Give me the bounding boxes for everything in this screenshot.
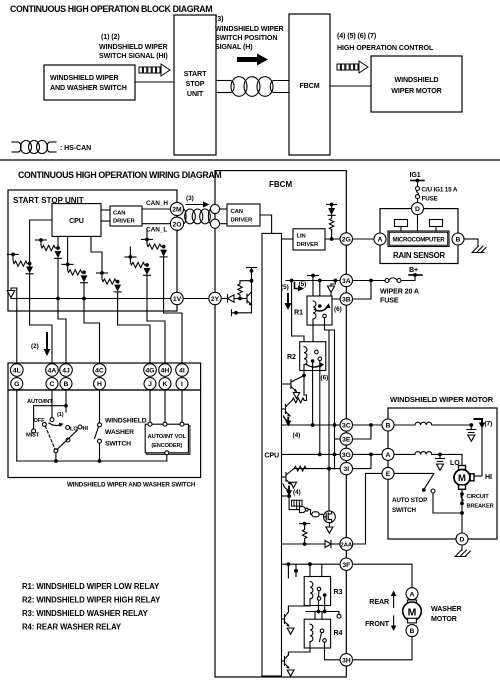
svg-text:IG1: IG1: [410, 171, 421, 179]
contact R2 open: [318, 357, 322, 361]
coil R2: [304, 347, 307, 365]
wire 3C to B with 3E outer loop: [353, 424, 383, 426]
connector D (rain sensor): [412, 203, 424, 215]
svg-text:FBCM: FBCM: [299, 82, 319, 90]
IG1 label: [410, 171, 421, 179]
coil R1: [313, 301, 316, 319]
transistor Q3 (gate driver): [282, 476, 287, 478]
connector 3B: [340, 293, 352, 305]
label (3) with arrow: [186, 195, 194, 202]
brush top: [459, 466, 466, 471]
svg-text:E: E: [386, 471, 391, 478]
connector 3E: [340, 433, 352, 445]
diode D-2G: [328, 208, 335, 215]
diode D-A: [26, 267, 33, 274]
transistor Q6 (R4 driver): [288, 652, 310, 655]
3I line with resistor: [294, 468, 340, 470]
svg-text:4L: 4L: [13, 368, 21, 375]
connector 3F: [340, 558, 352, 570]
CPU U101 box: [52, 204, 101, 237]
transistor Q5 (R3 driver): [288, 606, 310, 612]
svg-text:R4: REAR WASHER RELAY: R4: REAR WASHER RELAY: [22, 623, 122, 632]
separator line: [0, 159, 500, 161]
dashed squares arrow 2: [337, 61, 368, 73]
svg-text:HI: HI: [83, 426, 89, 432]
connector 2O: [170, 217, 183, 230]
wire 2AA to E: [353, 473, 383, 544]
wire switch to start stop unit: [135, 81, 174, 83]
open pin upper: [210, 204, 219, 213]
svg-text:K: K: [163, 381, 168, 388]
washer motor label: [431, 605, 462, 623]
pull-up diode/resistor at 2G: [327, 204, 337, 206]
svg-text:DRIVER: DRIVER: [297, 242, 320, 248]
diode D-E: [144, 268, 151, 275]
ground rail of switch: [16, 390, 18, 461]
svg-text:WINDSHIELD: WINDSHIELD: [105, 418, 147, 425]
MOSFET Q4: [324, 511, 336, 523]
connector 4A: [46, 364, 59, 377]
svg-text:3E: 3E: [342, 437, 351, 444]
svg-text:C: C: [50, 381, 55, 388]
svg-text:R3: R3: [334, 588, 343, 596]
svg-text:M: M: [408, 606, 417, 618]
wire 2G to A: [353, 238, 375, 240]
wire CPU left to cell A: [30, 220, 52, 264]
contact R4 no: [323, 639, 327, 643]
wire washer B to 3H: [353, 637, 413, 660]
svg-text:SWITCH SIGNAL (HI): SWITCH SIGNAL (HI): [99, 52, 168, 60]
svg-text:WIPER MOTOR: WIPER MOTOR: [391, 87, 441, 95]
node CAN_H label: [146, 200, 168, 207]
svg-text:CPU: CPU: [264, 452, 279, 460]
CPU bar: [262, 233, 282, 676]
connector J: [144, 378, 156, 390]
supply stub + resistor to 2AA line: [300, 523, 310, 525]
contact R1 common: [318, 304, 322, 308]
A coil (low): [394, 453, 415, 455]
connector 2G: [340, 233, 352, 245]
wire to LO brush: [451, 454, 462, 465]
svg-text:(4): (4): [293, 489, 301, 496]
wiper motor M: [454, 470, 470, 486]
svg-text:2AA: 2AA: [340, 542, 352, 548]
coil R3: [310, 582, 313, 599]
svg-text:(ENCODER): (ENCODER): [151, 443, 182, 449]
connector 2Y: [209, 292, 221, 304]
svg-text:2M: 2M: [172, 207, 182, 214]
svg-text:4A: 4A: [48, 368, 57, 375]
contact AUTO/INT: [50, 418, 54, 422]
svg-text:SWITCH: SWITCH: [105, 441, 131, 448]
contact MIST: [32, 429, 36, 433]
svg-text:RAIN SENSOR: RAIN SENSOR: [393, 251, 446, 260]
svg-text:DRIVER: DRIVER: [113, 219, 136, 225]
connector 4C: [93, 364, 106, 377]
arc arrow (1): [49, 423, 61, 426]
IG1 supply bar: [411, 180, 424, 182]
connector 3H: [340, 654, 352, 666]
ground (unit): [11, 288, 17, 291]
wire (7) down to HI: [481, 426, 483, 475]
svg-text:(4) (5) (6) (7): (4) (5) (6) (7): [337, 32, 377, 40]
svg-text:4I: 4I: [179, 368, 185, 375]
wire CPU to CAN driver: [101, 209, 110, 211]
connector B (rain sensor): [452, 233, 464, 245]
svg-text:(4): (4): [293, 432, 301, 439]
start stop unit box: [8, 190, 177, 311]
fuse WIPER 20A: [385, 279, 389, 283]
label (3) switch position signal: [215, 15, 284, 51]
label (5) texts and arrows: [281, 284, 289, 291]
svg-text:R2: R2: [287, 353, 296, 361]
svg-text:R3: WINDSHIELD WASHER RELAY: R3: WINDSHIELD WASHER RELAY: [22, 609, 149, 618]
svg-text:B: B: [386, 423, 391, 430]
wire CPU bottom feeds: [57, 236, 59, 248]
connector 3A: [340, 274, 352, 286]
svg-text:AUTO/INT: AUTO/INT: [27, 399, 53, 405]
switch bottom label: [67, 482, 196, 489]
svg-text:G: G: [14, 381, 19, 388]
svg-text:WINDSHIELD WIPER AND WASHER SW: WINDSHIELD WIPER AND WASHER SWITCH: [67, 482, 196, 489]
relay R4: [304, 619, 330, 648]
auto/int vol encoder box: [147, 426, 190, 455]
svg-text:3A: 3A: [342, 278, 351, 285]
svg-text:(1): (1): [57, 412, 64, 418]
connector strip box: [8, 363, 201, 390]
3F line: [282, 563, 341, 565]
svg-text:MICROCOMPUTER: MICROCOMPUTER: [393, 237, 446, 244]
wires unit to connector row: [16, 288, 18, 364]
diode D-C: [81, 275, 88, 282]
connector B: [60, 378, 72, 390]
svg-text:AND WASHER SWITCH: AND WASHER SWITCH: [50, 84, 127, 92]
wire CAN_L: [142, 223, 171, 225]
lever R3: [318, 591, 321, 597]
connector E (wiper motor): [382, 467, 394, 479]
svg-text:WINDSHIELD WIPER: WINDSHIELD WIPER: [215, 25, 284, 33]
contact R1 open: [323, 314, 327, 318]
lever R4: [320, 633, 322, 642]
svg-text:MIST: MIST: [26, 433, 40, 439]
switch body box: [8, 390, 201, 478]
wires R2 contacts down: [312, 363, 314, 425]
wire R4 out to 3H: [325, 642, 341, 660]
wire 1V-2Y: [183, 298, 209, 300]
connector D (wiper motor): [456, 533, 468, 545]
thick black arrow: [237, 54, 268, 66]
brush HI nub: [470, 474, 474, 481]
2AA line with diode: [282, 543, 326, 545]
3A line: [286, 280, 340, 282]
LIN driver box: [282, 238, 294, 240]
logic box: [292, 500, 303, 506]
svg-text:4J: 4J: [62, 368, 70, 375]
svg-text:WASHER: WASHER: [105, 429, 134, 436]
windshield wiper and washer switch box: [44, 65, 135, 100]
svg-text:WASHER: WASHER: [431, 605, 462, 613]
transistor Q2 (3C driver): [282, 408, 286, 410]
connector A (wiper motor): [382, 448, 394, 460]
circuit breaker: [461, 489, 463, 533]
svg-text:3C: 3C: [342, 423, 351, 430]
rain sensor box: [380, 209, 458, 264]
pigtail terminal: [338, 612, 340, 615]
svg-text:D: D: [460, 537, 465, 544]
wire LIN to 2G: [325, 238, 340, 240]
svg-text:LIN: LIN: [297, 234, 306, 240]
svg-text:CONTINUOUS HIGH OPERATION WIRI: CONTINUOUS HIGH OPERATION WIRING DIAGRAM: [18, 170, 221, 180]
svg-text:R1: WINDSHIELD WIPER LOW RELAY: R1: WINDSHIELD WIPER LOW RELAY: [22, 582, 160, 591]
brush bottom: [459, 485, 466, 490]
svg-text:2O: 2O: [172, 221, 181, 228]
svg-text:(3): (3): [186, 195, 194, 202]
sensor element left: [395, 220, 408, 227]
svg-text:4G: 4G: [145, 368, 154, 375]
encoder wires J K I: [149, 390, 151, 423]
svg-text:A: A: [386, 452, 391, 459]
svg-text:CAN: CAN: [113, 211, 125, 217]
contact LO: [66, 426, 70, 430]
svg-text:LO: LO: [70, 427, 78, 433]
wire 3G to A with 3I outer loop: [353, 453, 383, 455]
ground rail wire: [11, 298, 171, 300]
svg-text:WINDSHIELD WIPER: WINDSHIELD WIPER: [50, 74, 119, 82]
resistor cell D: [97, 272, 108, 274]
svg-text:C/U IG1 15 A: C/U IG1 15 A: [422, 187, 458, 194]
svg-text:(6): (6): [321, 375, 329, 382]
brush washer top: [408, 600, 417, 605]
noise ground A: [439, 454, 441, 458]
rotary wiper switch SW1: [27, 399, 53, 405]
connector C: [46, 378, 58, 390]
connector G: [11, 378, 23, 390]
wire B to mist branch: [65, 390, 67, 406]
resistor R-q1: [292, 398, 306, 403]
B coil (high): [394, 424, 415, 426]
svg-text:WINDSHIELD WIPER MOTOR: WINDSHIELD WIPER MOTOR: [390, 395, 494, 404]
wire FBCM to wiper motor: [330, 85, 371, 87]
connector H: [94, 378, 106, 390]
title: wiring diagram: [18, 170, 221, 180]
dashed squares arrow 1: [139, 64, 170, 76]
svg-text:B+: B+: [409, 266, 418, 274]
wire rotary common to rail: [55, 453, 57, 461]
connector 1V: [171, 292, 183, 304]
microcomputer box: [388, 231, 449, 247]
resistor R-2G: [329, 215, 333, 232]
svg-text:(7): (7): [485, 421, 493, 428]
svg-text:3H: 3H: [342, 657, 351, 664]
svg-text:HIGH OPERATION CONTROL: HIGH OPERATION CONTROL: [337, 44, 434, 52]
auto stop switch: [394, 472, 434, 474]
svg-text:FUSE: FUSE: [422, 196, 438, 203]
svg-text:A: A: [410, 591, 415, 598]
gate feed line: [282, 495, 290, 497]
svg-text:(5): (5): [281, 284, 289, 291]
svg-text:: HS-CAN: : HS-CAN: [60, 144, 91, 152]
svg-text:2G: 2G: [342, 237, 351, 244]
gate symbol: [289, 509, 299, 511]
connector B (wiper motor): [382, 419, 394, 431]
wire branch to R2 coil: [292, 281, 304, 342]
svg-text:3F: 3F: [342, 562, 350, 569]
fuse C/U IG1 15A: [416, 187, 420, 191]
svg-text:WINDSHIELD WIPER: WINDSHIELD WIPER: [99, 43, 168, 51]
svg-text:R1: R1: [294, 309, 303, 317]
svg-text:(2): (2): [31, 343, 39, 350]
svg-text:CAN_H: CAN_H: [146, 200, 168, 207]
connector B (washer): [406, 625, 418, 637]
label (7) thick arrow: [475, 419, 483, 424]
wire R1 open contact down: [325, 318, 330, 330]
dashed lever OFF->common: [45, 426, 55, 449]
svg-text:2Y: 2Y: [211, 296, 220, 303]
connector 4I: [176, 364, 189, 377]
svg-text:(1) (2): (1) (2): [101, 33, 120, 41]
supply stub for R1 coil: [308, 275, 319, 277]
svg-text:3G: 3G: [342, 452, 351, 459]
wires to R4: [314, 612, 316, 620]
svg-text:J: J: [148, 381, 152, 388]
wire B to ground: [464, 238, 478, 240]
windshield wiper motor box (block diagram): [371, 56, 462, 112]
svg-text:4H: 4H: [161, 368, 170, 375]
resistor cell F: [142, 238, 153, 240]
title: block diagram: [10, 4, 212, 14]
wire D to microcomputer: [417, 215, 419, 231]
sensor element right: [430, 220, 443, 227]
resistor R-2Y: [238, 282, 242, 296]
svg-text:M: M: [458, 473, 466, 484]
svg-text:AUTO/INT VOL: AUTO/INT VOL: [148, 434, 187, 440]
connector K: [159, 378, 171, 390]
svg-text:FUSE: FUSE: [380, 297, 399, 305]
wire R1 common up to 3A: [319, 281, 321, 307]
start stop unit box: [174, 15, 216, 155]
label (1)(2) windshield wiper switch signal: [99, 33, 168, 60]
lever arc R1 (6): [315, 307, 328, 311]
svg-text:B: B: [410, 628, 415, 635]
wire 3B loop up: [353, 281, 372, 300]
svg-text:1V: 1V: [173, 296, 182, 303]
svg-text:CAN: CAN: [231, 209, 243, 215]
svg-text:(3): (3): [215, 15, 224, 23]
connector 3C: [340, 419, 352, 431]
contact R3 no: [323, 593, 327, 597]
svg-text:START: START: [184, 70, 207, 78]
contact R2 upper: [315, 350, 319, 354]
wire R1 coil bottom to R2: [312, 325, 314, 342]
supply bar: [247, 267, 257, 269]
wire C to rotary: [51, 390, 53, 418]
wire 3A to fuse: [353, 280, 386, 282]
svg-text:SWITCH: SWITCH: [392, 507, 417, 514]
MOSFET source to ground: [328, 523, 330, 527]
resistor cell C: [62, 263, 73, 265]
contact R3 common: [317, 587, 321, 591]
resistor cell E: [125, 256, 136, 258]
svg-text:STOP: STOP: [186, 80, 205, 88]
FBCM box: [215, 171, 346, 677]
ground (wiper motor): [461, 545, 463, 550]
svg-text:R4: R4: [334, 629, 343, 637]
svg-text:H: H: [97, 381, 102, 388]
svg-text:BREAKER: BREAKER: [467, 504, 494, 510]
svg-text:SWITCH POSITION: SWITCH POSITION: [215, 34, 277, 42]
ground (rain sensor) hatched: [472, 246, 486, 253]
diode D-F: [160, 250, 167, 257]
svg-text:WINDSHIELD: WINDSHIELD: [395, 76, 439, 84]
svg-text:AUTO STOP: AUTO STOP: [392, 497, 427, 504]
connector 4L: [10, 364, 23, 377]
contact R2 common: [311, 359, 315, 363]
svg-text:HI: HI: [485, 473, 492, 481]
svg-text:WIPER 20 A: WIPER 20 A: [380, 288, 419, 296]
svg-text:UNIT: UNIT: [187, 90, 204, 98]
washer motor M: [403, 602, 422, 621]
wiper motor box: [388, 408, 497, 539]
3C line: [282, 424, 341, 426]
rotary common contact: [54, 449, 58, 453]
connector 4G: [144, 364, 157, 377]
transistor Q1 (R2 driver): [302, 374, 306, 378]
washer switch SW2: [99, 390, 101, 423]
relay R3: [304, 577, 330, 606]
svg-text:(6): (6): [334, 306, 342, 313]
wire 3F to washer A: [353, 564, 413, 588]
relay R1: [307, 296, 332, 325]
svg-text:4C: 4C: [95, 368, 104, 375]
twisted pair top (HS-CAN): [216, 80, 230, 82]
svg-text:R2: WINDSHIELD WIPER HIGH RELA: R2: WINDSHIELD WIPER HIGH RELAY: [22, 596, 161, 605]
lever arc R2 (6): [306, 364, 321, 367]
CAN driver (FBCM) box: [220, 208, 227, 210]
resistor cell B: [36, 239, 47, 241]
svg-text:I: I: [181, 381, 183, 388]
contact R4 common: [320, 629, 324, 633]
connector 3G: [340, 448, 352, 460]
3G line: [282, 453, 341, 455]
svg-text:A: A: [378, 237, 383, 244]
junction rail under R3: [306, 611, 336, 613]
svg-text:CIRCUIT: CIRCUIT: [467, 494, 490, 500]
contact mid: [66, 438, 70, 442]
CAN driver (unit) box: [110, 206, 142, 226]
coil R4: [310, 624, 313, 641]
wire 3B up arrow to 3A line: [333, 279, 337, 283]
diode D-B: [55, 251, 62, 258]
svg-text:FBCM: FBCM: [269, 180, 292, 189]
wire CAN driver to CPU bar: [260, 215, 272, 233]
connector 2M: [170, 202, 183, 215]
FBCM box (block diagram): [289, 14, 330, 155]
svg-text:3I: 3I: [343, 466, 349, 473]
noise ground B: [470, 425, 472, 430]
connector 4H: [159, 364, 172, 377]
svg-text:REAR: REAR: [369, 598, 389, 606]
contact HI: [78, 425, 82, 429]
twisted pair wiring diagram: [183, 209, 186, 224]
svg-text:FRONT: FRONT: [365, 620, 390, 628]
label (4)(5)(6)(7) high operation control: [337, 32, 434, 52]
FRONT arrow: [365, 620, 390, 628]
connector A (rain sensor): [374, 233, 386, 245]
contact OFF: [42, 422, 46, 426]
REAR arrow: [369, 598, 389, 606]
connector 2AA: [340, 538, 353, 551]
relay R2: [300, 342, 326, 371]
